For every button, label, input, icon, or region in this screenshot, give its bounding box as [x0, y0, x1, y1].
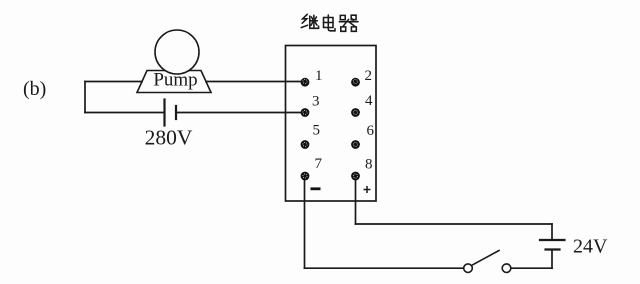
- svg-text:6: 6: [367, 123, 375, 139]
- svg-text:7: 7: [315, 156, 323, 172]
- svg-text:3: 3: [312, 94, 320, 110]
- svg-text:5: 5: [313, 123, 321, 139]
- svg-text:1: 1: [315, 68, 323, 84]
- svg-text:Pump: Pump: [153, 70, 197, 91]
- svg-text:24V: 24V: [573, 236, 608, 258]
- svg-text:8: 8: [365, 157, 373, 173]
- svg-text:4: 4: [365, 93, 373, 109]
- svg-text:(b): (b): [23, 78, 46, 100]
- svg-text:280V: 280V: [145, 126, 193, 150]
- svg-text:2: 2: [365, 68, 373, 84]
